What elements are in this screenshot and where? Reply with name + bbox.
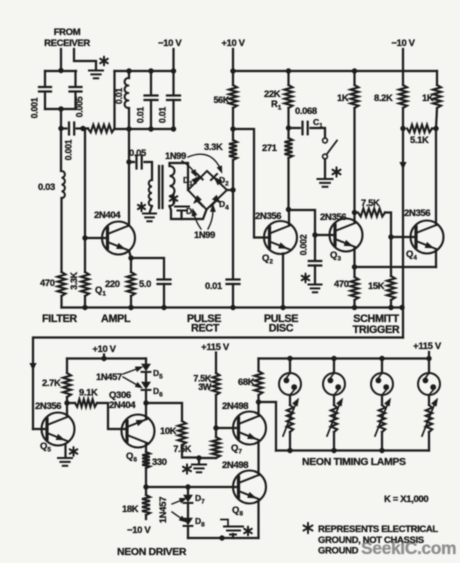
svg-text:8.2K: 8.2K (374, 92, 393, 103)
svg-text:FILTER: FILTER (42, 313, 77, 325)
capacitor 0.01 first (148, 68, 153, 73)
inductor 0.03 (60, 129, 62, 172)
node Q4 base (388, 234, 393, 239)
neon lamp 2 (331, 356, 336, 361)
neon lamp 4 (428, 359, 430, 374)
svg-text:2.7K: 2.7K (42, 377, 61, 388)
transistor Q1 2N404 (102, 222, 135, 255)
wire 10K to ground node (182, 445, 199, 458)
wire +10V / -10V top rail (233, 70, 437, 72)
wire primary to ground (150, 206, 153, 213)
svg-text:1N99: 1N99 (194, 229, 215, 240)
transistor Q5 2N356 (42, 413, 75, 446)
svg-text:NEON TIMING LAMPS: NEON TIMING LAMPS (302, 456, 406, 468)
svg-text:−10 V: −10 V (391, 38, 415, 49)
wire Q1 emitter node (129, 251, 131, 273)
arrow 1N457 to D7 (172, 500, 182, 504)
ground bridge left with asterisk (175, 207, 189, 211)
asterisk input ground (100, 57, 108, 66)
ground chassis at input (89, 70, 103, 72)
svg-text:3.3K: 3.3K (69, 271, 79, 289)
wire Q3 collector (353, 213, 355, 223)
svg-text:0.068: 0.068 (295, 105, 317, 116)
svg-text:NEON DRIVER: NEON DRIVER (117, 546, 187, 558)
svg-text:3.3K: 3.3K (204, 141, 223, 152)
svg-text:2N356: 2N356 (320, 212, 346, 223)
wire receiver ground branch (74, 49, 96, 70)
wire Q4 base (391, 236, 416, 238)
svg-text:RECEIVER: RECEIVER (44, 38, 90, 49)
resistor 22K R1 (286, 68, 291, 73)
wire +115V to 7.5K 3W (215, 353, 217, 374)
transistor Q4 2N356 (411, 221, 444, 254)
node input top (58, 68, 63, 73)
svg-text:AMPL: AMPL (101, 313, 131, 325)
wire input node down (60, 109, 62, 129)
svg-text:2N356: 2N356 (35, 401, 61, 412)
wire Q6 to 10K (146, 403, 182, 421)
wire filter to bus corner (60, 296, 62, 308)
variable resistor lamp 1 (289, 395, 291, 405)
capacitor 0.005 input right branch (74, 71, 76, 86)
transistor Q8 2N498 (233, 471, 266, 504)
diode D2 (214, 177, 222, 185)
wire -10V left rail (115, 70, 175, 72)
flow arrow neon driver feed (29, 363, 36, 371)
asterisk Q5 ground (70, 447, 78, 456)
resistor 470 emitter (351, 277, 359, 300)
asterisk chassis ground (244, 527, 252, 536)
capacitor C1 0.068 (289, 127, 301, 129)
wire Q4 collector (435, 129, 437, 226)
svg-text:+115 V: +115 V (201, 342, 230, 353)
arrow 1N457 to D8 (172, 512, 182, 519)
svg-text:RECT: RECT (191, 323, 220, 335)
svg-text:0.01: 0.01 (205, 280, 222, 291)
wire switch to ground (324, 159, 326, 179)
svg-text:3W: 3W (198, 382, 212, 392)
svg-text:0.01: 0.01 (158, 107, 168, 123)
svg-text:271: 271 (262, 142, 277, 153)
svg-text:+115 V: +115 V (413, 341, 442, 352)
svg-text:2N498: 2N498 (222, 460, 248, 471)
asterisk 0.002 ground (302, 274, 310, 283)
svg-text:470: 470 (40, 277, 55, 288)
node ground 10K 7.5K (196, 455, 201, 460)
diode D7 (187, 487, 189, 494)
ground switch (318, 178, 333, 180)
wire filter bottom run (83, 127, 174, 130)
wire Q5 collector (66, 403, 68, 417)
wire Q7 collector (257, 402, 259, 416)
wire loop bottom (45, 108, 76, 110)
svg-text:0.001: 0.001 (64, 139, 74, 160)
svg-text:−10 V: −10 V (158, 38, 182, 49)
svg-text:0.002: 0.002 (299, 234, 309, 255)
resistor 18K (142, 495, 150, 515)
wire lamps bottom bus (276, 449, 429, 451)
svg-text:TRIGGER: TRIGGER (353, 324, 400, 336)
node Q3 base (312, 232, 317, 237)
wire Q4 emitter (435, 250, 437, 268)
svg-text:68K: 68K (238, 376, 255, 387)
arrow 1N99 to D3 (194, 214, 201, 229)
wire bottom bus top section (62, 306, 404, 308)
wire -10V right feed (402, 49, 404, 71)
wire filter node to -10V rail riser (113, 71, 115, 129)
wire +115V lamps feed (428, 352, 430, 359)
arrow 1N99 to D1 (182, 161, 194, 172)
arrow 1N457 to D5 (123, 369, 138, 375)
svg-text:K = X1,000: K = X1,000 (384, 494, 428, 505)
wire bridge output down (232, 190, 234, 278)
svg-text:1N457: 1N457 (157, 497, 168, 523)
svg-text:1N457: 1N457 (96, 371, 122, 382)
wire input from receiver (60, 49, 62, 70)
resistor 1K Q3 load (352, 68, 357, 73)
resistor 2.7K (66, 359, 68, 374)
diode D5 (145, 359, 147, 364)
wire Q7 emitter to Q8 collector (257, 441, 259, 476)
svg-text:2N404: 2N404 (109, 400, 136, 411)
capacitor 0.01 to bus (227, 278, 240, 280)
svg-text:7.5K: 7.5K (361, 197, 380, 208)
resistor 7.5K coupling (358, 209, 385, 217)
wire D7 D8 branch (146, 486, 239, 488)
wire Q7 base (216, 427, 239, 429)
diode D1 (192, 176, 200, 184)
node Q5 collector (66, 397, 68, 403)
arrow 1N99 to D4 (208, 210, 213, 229)
wire bridge right corner (227, 189, 233, 191)
wire Q3 base (315, 234, 335, 236)
resistor 9.1K (75, 399, 97, 407)
variable resistor lamp 3 (381, 395, 383, 405)
diode D3 (194, 196, 202, 204)
wire Q6 emitter to 330 (145, 444, 147, 453)
capacitor 0.002 (314, 235, 316, 260)
transistor Q6 2N404 (122, 415, 155, 448)
ground transformer primary (143, 213, 156, 215)
legend asterisk (304, 523, 313, 533)
wire Q6 collector (145, 403, 147, 419)
wire Q5 emitter to ground (64, 444, 66, 458)
asterisk ground node (183, 464, 191, 473)
asterisk primary ground (138, 203, 145, 211)
resistor 470 filter (60, 198, 62, 272)
resistor 15K (390, 237, 392, 276)
wire lamps +115V rail (259, 357, 430, 359)
transistor Q7 2N498 (233, 412, 266, 445)
svg-text:5.1K: 5.1K (410, 134, 429, 145)
svg-text:+10 V: +10 V (92, 344, 116, 355)
wire Q1 collector (128, 162, 130, 226)
arrow 1N99 to D2 (188, 154, 220, 168)
svg-text:9.1K: 9.1K (79, 387, 98, 398)
svg-text:2N498: 2N498 (222, 401, 248, 412)
wire Q5 base (33, 428, 47, 430)
capacitor 0.001 input left branch (45, 70, 76, 72)
capacitor 0.01 second (172, 71, 174, 94)
wire +10V lower rail (67, 357, 146, 359)
resistor 8.2K (399, 85, 407, 108)
svg-text:0.01: 0.01 (114, 88, 124, 104)
arrow 1N457 to D6 (123, 377, 138, 386)
wire common emitter Q3 Q4 (355, 266, 437, 268)
wire Q3 emitter (353, 248, 355, 267)
capacitor 0.001 series coupling (61, 127, 67, 129)
wire ground node stub (198, 458, 200, 464)
svg-text:330: 330 (152, 456, 167, 467)
svg-text:18K: 18K (122, 503, 139, 514)
transformer T1 secondary (170, 166, 175, 206)
svg-text:0.005: 0.005 (75, 96, 85, 117)
chassis ground Q8 (232, 534, 234, 538)
svg-text:0.01: 0.01 (136, 107, 146, 123)
wire 9.1K to Q6 base (67, 403, 125, 429)
svg-text:FROM: FROM (54, 27, 81, 38)
svg-text:1N99: 1N99 (165, 150, 186, 161)
ground 10K 7.5K node (192, 464, 206, 466)
svg-text:10K: 10K (160, 425, 177, 436)
svg-text:470: 470 (334, 278, 349, 289)
wire secondary bottom to bridge (170, 206, 207, 219)
resistor 330 (142, 452, 150, 468)
wire Q1 base column (84, 129, 86, 239)
transistor Q3 2N356 (330, 219, 363, 252)
svg-text:7.5K: 7.5K (173, 444, 191, 454)
diode D6 (145, 374, 147, 381)
svg-text:2N356: 2N356 (404, 208, 430, 219)
wire Q8 emitter (257, 500, 259, 539)
wire Q8 emitter bottom run (188, 537, 259, 539)
ground 0.002 (309, 284, 322, 286)
resistor 3.3K Q1 base (81, 272, 89, 296)
svg-text:2N356: 2N356 (255, 211, 281, 222)
resistor 5.1K (407, 125, 432, 133)
neon lamp 1 (287, 356, 292, 361)
node Q6 collector (143, 400, 148, 405)
neon lamp 3 (379, 356, 384, 361)
wire Q2 collector to Q3 base (289, 210, 316, 235)
wire 330 down (145, 468, 147, 487)
resistor 68K (257, 359, 259, 372)
node 5.1K left (400, 126, 405, 131)
wire +10V feed (232, 49, 234, 71)
wire -10V cross feed to neon driver (33, 338, 403, 430)
asterisk bridge ground (170, 194, 178, 203)
wire 7.5K to Q4 base node (385, 213, 391, 238)
wire secondary top to bridge (170, 163, 189, 190)
flow arrow -10V (399, 162, 406, 170)
wire +10V lower feed (103, 355, 105, 359)
svg-text:1K: 1K (422, 92, 434, 103)
wire -10V long feed down (402, 129, 404, 338)
svg-text:1K: 1K (337, 92, 349, 103)
variable resistor lamp 4 (428, 395, 430, 405)
node Q7 base (213, 425, 218, 430)
resistor series filter (88, 125, 115, 133)
wire Q2 emitter to bus (282, 254, 284, 308)
svg-text:0.03: 0.03 (38, 181, 55, 192)
diode D4 (212, 195, 220, 203)
svg-text:GROUND, NOT CHASSIS: GROUND, NOT CHASSIS (318, 535, 424, 546)
switch S1 (323, 138, 328, 143)
wire Q1 base (85, 237, 108, 239)
wire Q2 base takeoff (233, 129, 270, 238)
diode D8 (187, 505, 189, 517)
variable resistor lamp 2 (333, 395, 335, 405)
resistor 10K (178, 421, 186, 445)
svg-text:REPRESENTS ELECTRICAL: REPRESENTS ELECTRICAL (318, 524, 438, 535)
svg-text:15K: 15K (368, 280, 385, 291)
svg-text:220: 220 (105, 278, 120, 289)
transformer T1 core (159, 166, 163, 208)
svg-text:56K: 56K (214, 95, 230, 105)
resistor 3.3K bridge feed (229, 140, 237, 160)
resistor 271 ohm (285, 138, 293, 158)
resistor 7.5K lower (212, 437, 220, 458)
resistor 7.5K 3W (213, 373, 220, 395)
resistor 220 (127, 272, 135, 296)
svg-text:2N404: 2N404 (94, 210, 121, 221)
transistor Q2 2N356 (264, 221, 297, 254)
wire Q2 collector (288, 210, 290, 226)
resistor 56K (229, 85, 237, 108)
node Q3 collector (352, 210, 357, 215)
ground Q5 (58, 457, 72, 459)
svg-text:0.001: 0.001 (30, 97, 40, 118)
wire -10V feed (172, 49, 174, 71)
asterisk switch ground (333, 167, 341, 176)
svg-text:5.0: 5.0 (139, 278, 151, 289)
svg-text:0.05: 0.05 (129, 147, 146, 158)
transformer T1 primary (149, 180, 152, 206)
svg-text:DISC: DISC (269, 323, 294, 335)
diode bridge D1-D4 outline (188, 171, 227, 210)
wire collector bus to lamps (259, 402, 277, 451)
resistor 1K right (436, 71, 438, 85)
svg-text:+10 V: +10 V (221, 38, 245, 49)
svg-text:−10 V: −10 V (127, 525, 151, 536)
svg-text:GROUND: GROUND (318, 546, 359, 557)
node 68K bottom (256, 399, 261, 404)
inductor 0.01 choke (126, 68, 131, 73)
capacitor 5.0 (131, 258, 164, 278)
capacitor 0.05 coupling (126, 159, 131, 164)
